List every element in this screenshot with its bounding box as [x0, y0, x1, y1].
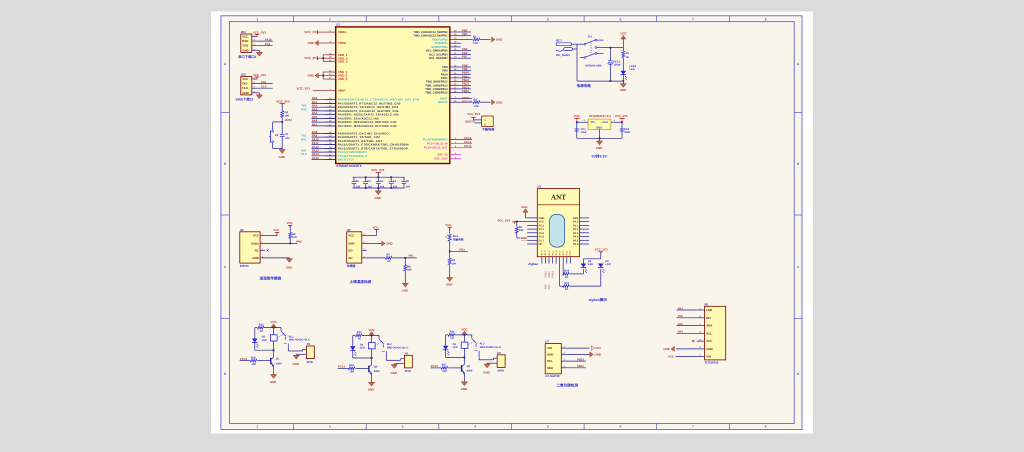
svg-text:GND: GND — [242, 48, 248, 52]
svg-text:C4: C4 — [380, 180, 384, 183]
svg-text:CLK: CLK — [242, 86, 249, 90]
svg-text:P3: P3 — [307, 342, 311, 346]
svg-text:RG1: RG1 — [453, 235, 459, 238]
svg-text:P2.2: P2.2 — [539, 224, 545, 227]
svg-text:3: 3 — [402, 425, 404, 429]
svg-text:U2 AMS1117-3.3: U2 AMS1117-3.3 — [589, 114, 611, 118]
svg-text:104: 104 — [406, 185, 411, 188]
svg-text:P0.4: P0.4 — [573, 236, 579, 239]
svg-text:TCS34725: TCS34725 — [705, 360, 719, 364]
svg-text:8: 8 — [765, 425, 767, 429]
svg-text:GND: GND — [620, 88, 626, 92]
svg-text:VCC: VCC — [348, 234, 355, 238]
svg-text:1K: 1K — [450, 337, 453, 340]
svg-text:TIM1_CH3N/PB15: TIM1_CH3N/PB15 — [425, 92, 448, 95]
svg-text:AO: AO — [348, 256, 353, 260]
svg-text:GND: GND — [279, 155, 285, 159]
svg-text:VCC: VCC — [595, 346, 602, 350]
svg-text:C2: C2 — [356, 180, 360, 183]
svg-text:Q3: Q3 — [467, 365, 471, 368]
svg-text:DC_Soket: DC_Soket — [556, 53, 570, 57]
svg-text:LED: LED — [706, 308, 712, 312]
svg-text:OSC_OUT: OSC_OUT — [434, 157, 448, 161]
svg-text:104: 104 — [393, 185, 398, 188]
svg-text:1K: 1K — [626, 56, 629, 59]
svg-text:10K: 10K — [285, 114, 290, 117]
svg-text:P0.6: P0.6 — [573, 243, 579, 246]
svg-text:VCC: VCC — [273, 228, 280, 232]
svg-text:JTDO/PB3: JTDO/PB3 — [434, 42, 448, 45]
svg-text:10K: 10K — [473, 42, 478, 45]
svg-text:P3.0: P3.0 — [569, 250, 572, 255]
svg-text:P1.0: P1.0 — [555, 250, 558, 255]
svg-text:P0.0: P0.0 — [573, 221, 579, 224]
svg-text:PB12: PB12 — [551, 271, 554, 278]
svg-text:PA7: PA7 — [678, 306, 684, 310]
svg-text:C5: C5 — [393, 180, 397, 183]
svg-text:串口下载口1: 串口下载口1 — [238, 55, 256, 59]
svg-text:P0.3: P0.3 — [573, 232, 579, 235]
svg-text:P1.1: P1.1 — [551, 250, 554, 255]
svg-text:BOOT0: BOOT0 — [462, 99, 472, 103]
svg-text:GND: GND — [521, 205, 527, 209]
svg-text:8050: 8050 — [467, 370, 473, 373]
svg-text:Q1: Q1 — [276, 358, 280, 361]
svg-text:5V转3.3V: 5V转3.3V — [592, 154, 608, 159]
svg-text:PB11: PB11 — [577, 364, 584, 368]
svg-text:GND: GND — [386, 242, 392, 246]
svg-text:SCL: SCL — [706, 331, 712, 335]
svg-text:BOOT0: BOOT0 — [465, 120, 475, 124]
svg-text:VCC: VCC — [620, 32, 627, 36]
svg-text:R2: R2 — [626, 52, 630, 55]
svg-text:VSSA: VSSA — [338, 41, 347, 45]
svg-text:LED: LED — [605, 263, 610, 266]
svg-text:GND: GND — [663, 347, 669, 351]
svg-text:P6: P6 — [705, 302, 709, 306]
svg-text:8050: 8050 — [374, 370, 380, 373]
svg-text:6: 6 — [620, 425, 622, 429]
svg-text:TIM3_CH3/ADC12_IN8/PB0: TIM3_CH3/ADC12_IN8/PB0 — [413, 31, 448, 34]
svg-text:PB8: PB8 — [442, 66, 448, 69]
svg-text:VCC: VCC — [539, 221, 545, 224]
svg-text:R11: R11 — [564, 282, 569, 285]
svg-text:VCC: VCC — [574, 114, 581, 118]
svg-text:R10: R10 — [564, 270, 569, 273]
svg-text:BOOT0: BOOT0 — [438, 100, 448, 104]
svg-text:电源电路: 电源电路 — [577, 83, 592, 88]
svg-text:10K: 10K — [349, 371, 354, 374]
svg-text:VCC_3V3: VCC_3V3 — [304, 56, 318, 60]
svg-text:LED: LED — [630, 68, 635, 71]
svg-text:10K: 10K — [519, 229, 524, 232]
svg-text:DHT11: DHT11 — [240, 264, 249, 268]
svg-text:PA10: PA10 — [265, 37, 272, 41]
svg-text:SDA: SDA — [706, 324, 713, 328]
svg-text:PB11: PB11 — [441, 77, 448, 80]
svg-text:C1: C1 — [285, 133, 289, 136]
svg-text:PA5: PA5 — [678, 322, 684, 326]
svg-text:GND: GND — [375, 196, 381, 200]
svg-text:GND: GND — [596, 125, 602, 129]
svg-text:104: 104 — [285, 137, 290, 140]
svg-text:6: 6 — [620, 17, 622, 21]
svg-text:SRD-05VDC-SL-C: SRD-05VDC-SL-C — [387, 346, 409, 349]
svg-text:U5: U5 — [347, 228, 351, 232]
svg-text:CLK: CLK — [301, 152, 307, 156]
svg-text:P1.2: P1.2 — [548, 250, 551, 255]
svg-text:PB9: PB9 — [442, 70, 448, 73]
svg-text:RXD: RXD — [242, 39, 248, 43]
svg-text:4: 4 — [474, 17, 476, 21]
svg-text:GND: GND — [293, 362, 299, 366]
svg-text:ANT: ANT — [551, 194, 566, 202]
svg-text:PB15: PB15 — [462, 89, 469, 93]
svg-text:VCC_3V3: VCC_3V3 — [467, 112, 480, 116]
svg-text:VCC: VCC — [445, 223, 452, 227]
svg-text:PA9: PA9 — [265, 42, 271, 46]
svg-text:PC15: PC15 — [431, 364, 438, 368]
svg-text:PB10: PB10 — [544, 271, 547, 278]
svg-text:TIM1_CH2N/PB14: TIM1_CH2N/PB14 — [425, 88, 448, 91]
svg-text:PA1: PA1 — [409, 254, 415, 258]
svg-text:GND: GND — [308, 74, 316, 78]
svg-text:PB1: PB1 — [459, 247, 465, 251]
svg-text:JD2: JD2 — [241, 73, 247, 77]
svg-text:GND: GND — [595, 353, 601, 357]
svg-text:8: 8 — [765, 17, 767, 21]
svg-text:VCC: VCC — [242, 35, 249, 39]
svg-text:2: 2 — [329, 17, 331, 21]
svg-text:SWD下载口: SWD下载口 — [236, 98, 254, 102]
svg-text:P5: P5 — [497, 351, 501, 355]
svg-text:R15: R15 — [251, 356, 256, 359]
svg-text:BC1: BC1 — [556, 39, 562, 43]
svg-text:JD1: JD1 — [241, 30, 247, 34]
svg-text:BOOT1/PB2: BOOT1/PB2 — [432, 39, 448, 42]
svg-text:RX2: RX2 — [301, 107, 307, 111]
svg-text:GND: GND — [308, 41, 316, 45]
svg-text:P0.7: P0.7 — [558, 250, 561, 255]
svg-text:P1.7: P1.7 — [539, 239, 545, 242]
svg-text:1: 1 — [256, 17, 258, 21]
svg-text:PA4: PA4 — [678, 330, 684, 334]
svg-text:土壤湿度检测: 土壤湿度检测 — [350, 279, 372, 284]
svg-text:TIM3_CH4/ADC12_IN9/PB1: TIM3_CH4/ADC12_IN9/PB1 — [413, 35, 448, 38]
svg-text:U7: U7 — [545, 340, 549, 344]
svg-text:GND: GND — [706, 347, 712, 351]
svg-text:GND: GND — [461, 387, 467, 391]
svg-text:104: 104 — [367, 185, 372, 188]
svg-text:PA15: PA15 — [312, 156, 319, 160]
svg-text:PB5: PB5 — [296, 239, 302, 243]
svg-text:SDA: SDA — [547, 366, 554, 370]
svg-text:1: 1 — [256, 425, 258, 429]
svg-text:4: 4 — [474, 425, 476, 429]
svg-text:VCC: VCC — [270, 320, 277, 324]
svg-text:U3: U3 — [537, 184, 541, 188]
svg-text:U4: U4 — [240, 228, 244, 232]
svg-text:LED: LED — [262, 339, 267, 342]
svg-text:VIN: VIN — [706, 355, 711, 359]
svg-text:1K: 1K — [565, 276, 568, 279]
svg-text:INT: INT — [706, 316, 711, 320]
svg-text:1K: 1K — [387, 260, 390, 263]
svg-text:DIO: DIO — [261, 80, 267, 84]
svg-text:I2C1_SCL/PB6: I2C1_SCL/PB6 — [429, 53, 448, 56]
svg-text:VCC_3V3: VCC_3V3 — [615, 114, 628, 118]
svg-text:2PIN: 2PIN — [405, 369, 411, 373]
svg-text:VIN: VIN — [547, 346, 552, 350]
svg-text:STM32F103C8T6: STM32F103C8T6 — [336, 164, 362, 168]
svg-text:RX1: RX1 — [301, 137, 307, 141]
svg-text:3: 3 — [402, 17, 404, 21]
svg-text:PC15-OSC32_OUT: PC15-OSC32_OUT — [424, 147, 448, 150]
svg-text:R1: R1 — [473, 36, 477, 39]
svg-text:GND: GND — [391, 371, 397, 375]
svg-text:Vout: Vout — [602, 120, 608, 124]
svg-text:GND: GND — [348, 242, 354, 246]
svg-text:100uF: 100uF — [613, 64, 621, 67]
svg-text:5: 5 — [547, 17, 549, 21]
svg-text:DIO: DIO — [242, 82, 248, 86]
svg-text:P2.0: P2.0 — [562, 250, 565, 255]
svg-text:Vin: Vin — [591, 120, 596, 124]
svg-text:光敏电阻: 光敏电阻 — [452, 238, 464, 242]
svg-text:PC14: PC14 — [338, 365, 345, 369]
svg-text:7: 7 — [692, 425, 694, 429]
svg-text:P1.6: P1.6 — [539, 236, 545, 239]
svg-text:zigbee模块: zigbee模块 — [589, 297, 608, 302]
svg-text:GND: GND — [402, 289, 408, 293]
svg-text:K2: K2 — [275, 134, 279, 137]
svg-text:PB10: PB10 — [577, 357, 584, 361]
svg-text:VCC: VCC — [668, 355, 675, 359]
svg-text:P0.5: P0.5 — [573, 239, 579, 242]
svg-text:P0.1: P0.1 — [573, 224, 579, 227]
svg-text:P0.2: P0.2 — [573, 228, 579, 231]
svg-text:K1: K1 — [588, 35, 592, 39]
svg-text:R7: R7 — [387, 253, 391, 256]
svg-text:PC14-OSC32_IN: PC14-OSC32_IN — [427, 143, 448, 146]
svg-text:VCC_3V3: VCC_3V3 — [595, 247, 608, 251]
svg-text:SCL: SCL — [547, 359, 553, 363]
svg-text:VCC_3V3: VCC_3V3 — [304, 30, 318, 34]
svg-text:GND: GND — [496, 38, 502, 42]
svg-text:R17: R17 — [442, 364, 447, 367]
svg-text:NC: NC — [539, 243, 543, 246]
svg-text:VCC_3V3: VCC_3V3 — [276, 100, 290, 104]
svg-text:GND: GND — [547, 352, 553, 356]
svg-text:PA6: PA6 — [678, 314, 684, 318]
svg-text:I2C1_SMBAI/PB5: I2C1_SMBAI/PB5 — [426, 50, 448, 53]
svg-text:CLK: CLK — [261, 85, 267, 89]
svg-text:GND: GND — [521, 236, 527, 240]
svg-text:PB10: PB10 — [441, 73, 448, 76]
svg-text:GND: GND — [596, 146, 602, 150]
svg-text:LED: LED — [360, 347, 365, 350]
svg-text:NRST: NRST — [285, 118, 293, 122]
svg-text:10K: 10K — [251, 363, 256, 366]
svg-text:C3: C3 — [367, 180, 371, 183]
svg-text:PA7: PA7 — [312, 122, 318, 126]
svg-text:VSS_3: VSS_3 — [338, 77, 348, 81]
svg-text:104: 104 — [380, 185, 385, 188]
svg-text:8050: 8050 — [276, 362, 282, 365]
svg-text:RES: RES — [573, 217, 579, 220]
svg-text:PC13: PC13 — [240, 357, 247, 361]
svg-text:P3.1: P3.1 — [566, 250, 569, 255]
svg-text:1K: 1K — [260, 330, 263, 333]
svg-text:VCC: VCC — [373, 225, 380, 229]
svg-text:GND: GND — [252, 256, 258, 260]
svg-text:GND: GND — [496, 100, 502, 104]
svg-text:PA0: PA0 — [544, 284, 547, 289]
svg-text:10K: 10K — [452, 262, 457, 265]
svg-text:10K: 10K — [442, 370, 447, 373]
svg-text:GND: GND — [483, 371, 489, 375]
svg-text:VCC_3V3: VCC_3V3 — [497, 219, 510, 223]
svg-text:SRD-05VDC-SL-C: SRD-05VDC-SL-C — [480, 346, 502, 349]
svg-text:PB1: PB1 — [462, 32, 468, 36]
svg-text:PC15: PC15 — [464, 144, 471, 148]
svg-text:温湿度传感器: 温湿度传感器 — [260, 275, 282, 280]
svg-text:TIM1_BKIN/PB12: TIM1_BKIN/PB12 — [426, 81, 448, 84]
svg-text:R14: R14 — [450, 331, 455, 334]
svg-text:VCC: VCC — [461, 328, 468, 332]
svg-text:二氧化碳检测: 二氧化碳检测 — [556, 382, 578, 387]
svg-text:GND: GND — [368, 388, 374, 392]
svg-text:VCC: VCC — [242, 77, 249, 81]
svg-text:PA15/JTDI: PA15/JTDI — [338, 158, 354, 162]
svg-text:GND: GND — [242, 91, 248, 95]
svg-text:VCC: VCC — [287, 221, 294, 225]
svg-text:2PIN: 2PIN — [307, 360, 313, 364]
svg-text:10uF: 10uF — [624, 131, 630, 134]
svg-text:PA1: PA1 — [548, 284, 551, 289]
svg-text:DaDa: DaDa — [251, 242, 259, 246]
svg-text:GND: GND — [539, 217, 545, 220]
svg-text:R4: R4 — [285, 111, 289, 114]
svg-text:VCC_3V3: VCC_3V3 — [297, 87, 311, 91]
svg-text:P4: P4 — [405, 351, 409, 355]
svg-text:GND: GND — [270, 380, 276, 384]
svg-text:10uF: 10uF — [581, 131, 587, 134]
svg-text:10K: 10K — [474, 105, 479, 108]
svg-text:传感器: 传感器 — [346, 264, 356, 268]
svg-text:VDDA: VDDA — [338, 30, 347, 34]
svg-text:LED: LED — [453, 346, 458, 349]
svg-text:TIM1_CH1N/PB13: TIM1_CH1N/PB13 — [425, 84, 448, 87]
svg-text:JNTRST/PB4: JNTRST/PB4 — [431, 46, 448, 49]
svg-text:I2C1_SDA/PB7: I2C1_SDA/PB7 — [429, 57, 448, 60]
svg-text:1K: 1K — [565, 288, 568, 291]
svg-text:VDD_3: VDD_3 — [338, 60, 348, 64]
svg-text:下载电路: 下载电路 — [482, 128, 496, 132]
svg-text:3V3: 3V3 — [706, 339, 712, 343]
svg-text:P1.5: P1.5 — [539, 232, 545, 235]
svg-text:P1.4: P1.4 — [541, 250, 544, 255]
svg-text:VBAT: VBAT — [338, 89, 346, 93]
svg-text:5: 5 — [547, 425, 549, 429]
svg-text:R16: R16 — [349, 364, 354, 367]
svg-text:U1: U1 — [336, 23, 340, 27]
svg-text:C6: C6 — [406, 180, 410, 183]
svg-text:P1.3: P1.3 — [544, 250, 547, 255]
svg-text:7: 7 — [692, 17, 694, 21]
svg-text:VCC: VCC — [368, 328, 375, 332]
svg-text:VCC_3V3: VCC_3V3 — [253, 30, 266, 34]
svg-text:R13: R13 — [357, 331, 362, 334]
svg-text:GND: GND — [286, 265, 292, 269]
svg-text:VCC_3V3: VCC_3V3 — [253, 73, 266, 77]
svg-text:104: 104 — [356, 185, 361, 188]
svg-text:GND: GND — [446, 283, 452, 287]
svg-text:PB7: PB7 — [462, 55, 468, 59]
svg-text:Zigbee: Zigbee — [527, 262, 538, 266]
svg-text:DO: DO — [348, 248, 353, 252]
svg-text:R12: R12 — [259, 323, 264, 326]
svg-text:Q2: Q2 — [374, 365, 378, 368]
svg-text:2: 2 — [329, 425, 331, 429]
svg-text:TXD: TXD — [242, 44, 248, 48]
svg-text:P2.1: P2.1 — [539, 228, 545, 231]
svg-text:VCC_3V3: VCC_3V3 — [371, 168, 385, 172]
svg-text:2PIN: 2PIN — [497, 369, 503, 373]
svg-text:PA7/SPI1_MOSI/ADC12_IN7/TIM3_C: PA7/SPI1_MOSI/ADC12_IN7/TIM3_CH2 — [338, 124, 397, 128]
svg-text:GY-SGP30: GY-SGP30 — [545, 374, 560, 378]
svg-text:VCC: VCC — [253, 234, 260, 238]
svg-text:1K: 1K — [358, 338, 361, 341]
svg-text:PC13/TAMPER/RTC: PC13/TAMPER/RTC — [423, 139, 448, 142]
svg-text:LED: LED — [588, 263, 593, 266]
svg-text:MTS202-A5B: MTS202-A5B — [586, 64, 602, 67]
svg-text:R2: R2 — [474, 99, 478, 102]
svg-text:10K: 10K — [407, 269, 412, 272]
